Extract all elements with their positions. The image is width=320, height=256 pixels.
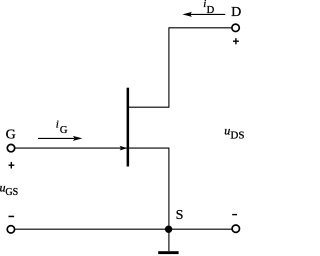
svg-text:GS: GS	[5, 187, 18, 198]
svg-text:u: u	[224, 123, 230, 137]
svg-text:D: D	[231, 5, 241, 20]
svg-text:S: S	[176, 208, 184, 223]
svg-text:i: i	[56, 119, 59, 131]
svg-text:DS: DS	[230, 130, 244, 142]
svg-text:G: G	[6, 128, 16, 143]
svg-text:D: D	[207, 5, 215, 16]
svg-text:G: G	[60, 125, 68, 136]
